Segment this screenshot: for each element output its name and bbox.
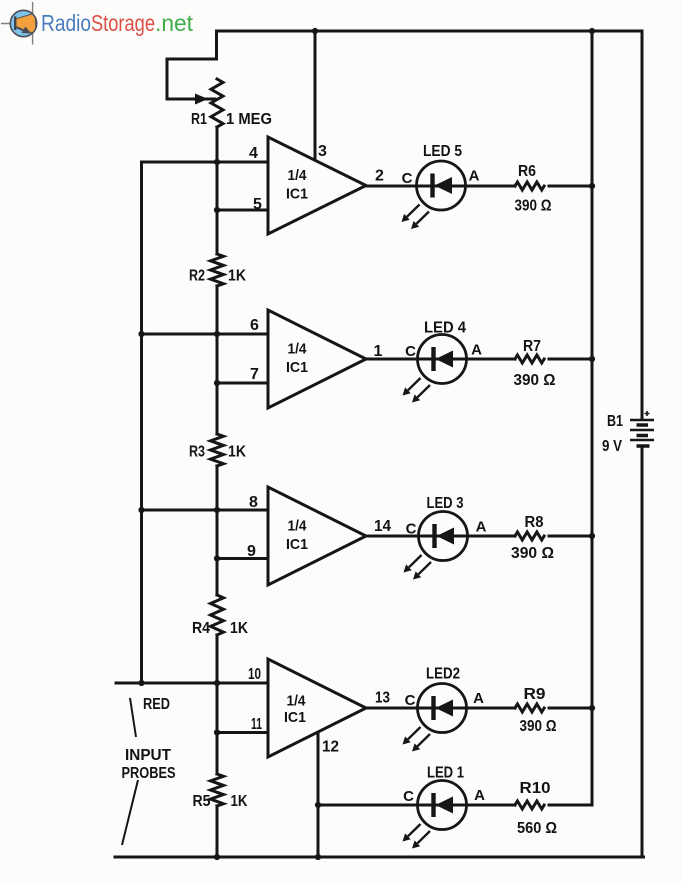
wire RED probe / pin10 row (116, 682, 268, 685)
wire LED4 row (366, 358, 592, 361)
svg-text:R3: R3 (189, 444, 205, 461)
wire pin6 row (142, 333, 269, 336)
svg-text:1 MEG: 1 MEG (226, 111, 272, 128)
svg-text:9 V: 9 V (602, 438, 622, 455)
R1 wiper arrowhead (195, 94, 208, 105)
svg-text:390 Ω: 390 Ω (511, 545, 554, 562)
svg-text:R4: R4 (192, 620, 210, 637)
svg-text:2: 2 (375, 168, 384, 185)
LED D1 (403, 781, 467, 849)
wire far right rail (641, 31, 644, 857)
svg-text:INPUT: INPUT (125, 747, 171, 764)
logo RadioStorage.net (1, 2, 194, 45)
svg-text:R7: R7 (523, 338, 541, 355)
svg-text:LED 4: LED 4 (424, 320, 466, 337)
resistor R1 zigzag (211, 79, 223, 127)
node inner rail / LED5 row (589, 183, 595, 189)
svg-text:10: 10 (248, 666, 261, 683)
node chain / pin10 (214, 680, 220, 686)
leader line to red probe (130, 698, 136, 737)
svg-text:1K: 1K (228, 444, 246, 461)
node pin12 / LED1 row (315, 802, 321, 808)
svg-text:B1: B1 (607, 413, 623, 430)
node chain / pin11 (214, 729, 220, 735)
node bus / pin6 (138, 331, 144, 337)
wire LED5 row (366, 185, 592, 188)
node top rail / pin3 (312, 28, 318, 34)
leader line to black probe (122, 780, 138, 845)
svg-text:.net: .net (155, 10, 194, 36)
svg-text:IC1: IC1 (286, 186, 308, 203)
svg-text:LED 5: LED 5 (423, 143, 462, 160)
svg-text:14: 14 (374, 518, 391, 535)
svg-text:A: A (469, 168, 480, 185)
wire bottom rail (115, 856, 644, 859)
svg-text:560 Ω: 560 Ω (517, 820, 557, 837)
wire pin11 row (217, 731, 268, 734)
node chain / pin9 (214, 555, 220, 561)
svg-text:IC1: IC1 (286, 536, 308, 553)
svg-text:R1: R1 (191, 111, 207, 128)
resistor R6 zigzag (515, 182, 544, 190)
svg-text:PROBES: PROBES (122, 765, 176, 782)
node bottom rail / chain (214, 854, 220, 860)
resistor R5 zigzag (211, 774, 224, 806)
svg-text:1/4: 1/4 (288, 341, 308, 358)
svg-text:390 Ω: 390 Ω (514, 372, 556, 389)
wire inner right rail (591, 31, 594, 805)
op-amp U1b (1/4 IC1) (268, 310, 366, 408)
LED D3 (404, 512, 468, 580)
svg-text:R5: R5 (193, 793, 211, 810)
node inner rail / LED4 row (589, 356, 595, 362)
resistor R7 zigzag (515, 355, 544, 363)
wire LED1 row (318, 804, 592, 807)
svg-text:C: C (405, 692, 416, 709)
node chain / pin8 (214, 507, 220, 513)
svg-text:IC1: IC1 (286, 359, 308, 376)
node inner rail / LED2 row (589, 705, 595, 711)
node chain / pin4 (214, 159, 220, 165)
op-amp U1a (1/4 IC1) (268, 137, 366, 234)
svg-text:A: A (476, 519, 487, 536)
op-amp U1c (1/4 IC1) (268, 487, 366, 585)
svg-text:1: 1 (374, 343, 383, 360)
wire top-left drop to R1 wiper jog (167, 31, 217, 99)
resistor R8 zigzag (515, 532, 544, 540)
svg-text:A: A (473, 690, 484, 707)
svg-text:8: 8 (249, 494, 258, 511)
resistor R9 zigzag (515, 704, 544, 712)
svg-text:9: 9 (247, 543, 256, 560)
svg-text:1/4: 1/4 (288, 167, 308, 184)
svg-text:Radio: Radio (41, 10, 91, 36)
battery B1 (630, 411, 654, 446)
wire pin5 row (217, 209, 268, 212)
svg-text:LED 1: LED 1 (427, 765, 464, 782)
svg-text:C: C (403, 788, 414, 805)
wire LED3 row (366, 535, 592, 538)
logo horn (16, 13, 36, 34)
svg-text:1K: 1K (228, 268, 246, 285)
svg-text:12: 12 (322, 739, 339, 756)
svg-text:7: 7 (250, 366, 259, 383)
svg-text:R9: R9 (524, 686, 546, 703)
svg-text:C: C (405, 343, 416, 360)
resistor R4 zigzag (211, 595, 224, 635)
wire left bus (140, 162, 143, 683)
svg-text:R2: R2 (189, 268, 205, 285)
LED D5 (402, 161, 466, 229)
svg-text:LED2: LED2 (426, 666, 460, 683)
svg-text:RED: RED (143, 696, 170, 713)
svg-text:R6: R6 (518, 163, 536, 180)
wire LED2 row (366, 707, 592, 710)
node bus / pin10 (138, 680, 144, 686)
svg-text:1K: 1K (230, 620, 248, 637)
wire pin12 line (317, 733, 320, 858)
svg-text:1/4: 1/4 (287, 693, 307, 710)
svg-text:390 Ω: 390 Ω (520, 718, 557, 735)
op-amp U1d (1/4 IC1) (268, 659, 366, 757)
wire top rail (217, 30, 643, 33)
svg-text:5: 5 (253, 196, 262, 213)
logo crosshair (1, 2, 37, 45)
svg-text:A: A (471, 342, 482, 359)
node bottom rail / pin12 (315, 854, 321, 860)
svg-text:11: 11 (251, 716, 262, 733)
wire resistor chain vertical (216, 127, 219, 857)
node inner rail / LED3 row (589, 533, 595, 539)
svg-text:Storage: Storage (91, 10, 155, 36)
node bus / pin8 (138, 507, 144, 513)
svg-text:R10: R10 (520, 780, 551, 797)
wire pin9 row (217, 557, 268, 560)
wire pin3 line (314, 31, 317, 159)
logo base bar (14, 16, 16, 30)
svg-text:6: 6 (250, 317, 259, 334)
wire pin7 row (217, 382, 268, 385)
svg-text:IC1: IC1 (284, 709, 306, 726)
svg-text:390 Ω: 390 Ω (515, 198, 552, 215)
logo emitter arrow (17, 27, 26, 31)
svg-text:C: C (402, 170, 413, 187)
resistor R2 zigzag (211, 254, 224, 286)
svg-text:R8: R8 (525, 514, 544, 531)
svg-text:LED 3: LED 3 (427, 495, 464, 512)
wire pin4 row (142, 161, 269, 164)
logo circle (10, 10, 36, 36)
LED D4 (403, 335, 467, 403)
resistor R3 zigzag (211, 434, 224, 466)
svg-text:1K: 1K (231, 793, 248, 810)
node chain / pin7 (214, 380, 220, 386)
svg-text:1/4: 1/4 (288, 518, 308, 535)
resistor R10 zigzag (515, 801, 544, 809)
svg-text:3: 3 (318, 143, 327, 160)
wire pin8 row (142, 509, 269, 512)
svg-text:4: 4 (249, 145, 258, 162)
node top rail / inner rail (589, 28, 595, 34)
node chain / pin5 (214, 207, 220, 213)
node chain / pin6 (214, 331, 220, 337)
LED D2 (403, 684, 467, 752)
svg-text:C: C (406, 521, 417, 538)
svg-text:A: A (474, 787, 485, 804)
svg-text:13: 13 (375, 690, 390, 707)
